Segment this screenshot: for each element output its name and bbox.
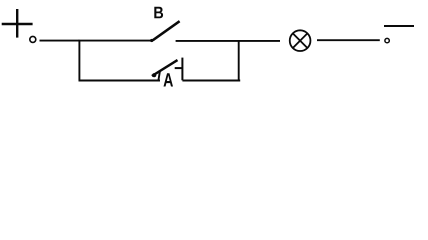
battery positive terminal plus sign [2,9,33,38]
wire from left terminal to junction node [40,40,80,42]
left branch vertical wire [78,40,80,81]
lamp cross [293,33,308,48]
switch A left contact tick [158,71,160,80]
wire from lamp to right terminal [317,39,380,41]
switch A blade [152,60,178,76]
battery negative terminal minus sign [384,25,414,27]
switch A pivot dot [152,73,156,77]
lamp circle [290,30,311,51]
wire from junction node to switch B pivot [79,40,153,42]
switch B pivot dot [150,39,153,42]
bottom wire left segment [79,80,161,82]
wire from switch B to lamp [176,40,280,42]
right open terminal circle [385,38,389,42]
switch A right contact stub [175,67,183,69]
switch A right contact tick [181,58,183,81]
left open terminal circle [30,36,36,42]
switch B blade [153,21,180,40]
label B [154,7,163,18]
bottom wire right segment [182,80,240,82]
right branch vertical wire [238,40,240,81]
label A [164,73,173,86]
